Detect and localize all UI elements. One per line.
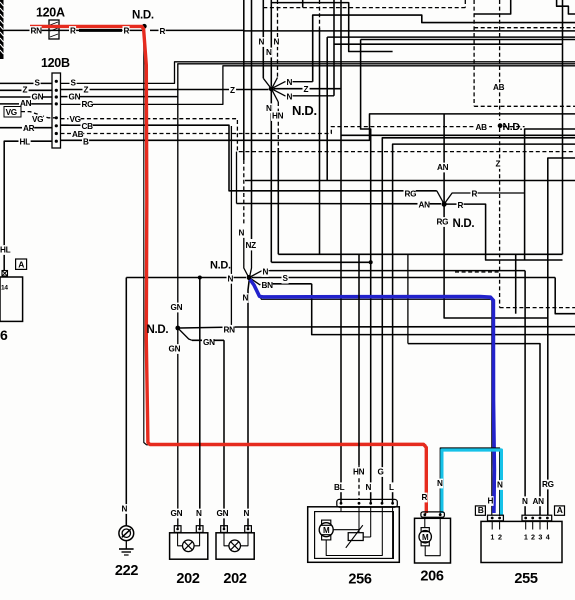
- wire HN diagonal and vertical: [271, 89, 278, 102]
- label Z left: [22, 85, 29, 95]
- label A boxed: [16, 259, 27, 269]
- component 206 box: [415, 518, 451, 563]
- wire y=135.3 to BL tee: [341, 134, 575, 136]
- svg-text:N: N: [366, 483, 372, 492]
- label N 255 B2: [496, 480, 503, 490]
- label AN left of junction: [418, 200, 430, 210]
- wire long vertical x=319.5: [319, 0, 321, 28]
- lamp 202-2 box: [216, 533, 254, 559]
- label RG below junction: [436, 217, 448, 227]
- edge connector hatched bar top-left: [0, 0, 4, 59]
- wire N black under cyan: [440, 448, 499, 516]
- label GN below junction3: [168, 344, 180, 354]
- node junction3 dot: [175, 326, 180, 331]
- svg-text:N: N: [263, 268, 269, 277]
- svg-text:14: 14: [1, 285, 8, 292]
- wire N corner down to 255 A1: [524, 271, 526, 515]
- wire HN-line vertical x=407.9: [407, 254, 409, 343]
- label S left: [34, 78, 41, 88]
- component 256 motor: [319, 523, 333, 537]
- wire S right rising to y=61.8: [61, 62, 575, 84]
- wire dashed AB vertical x=474.1: [473, 0, 475, 106]
- wire y=180.5 full: [245, 180, 575, 182]
- label R right of junction: [457, 200, 464, 210]
- svg-text:R: R: [458, 201, 464, 210]
- svg-text:AB: AB: [476, 123, 488, 132]
- label AN above junction: [436, 163, 448, 173]
- label N left of junction2: [227, 274, 234, 284]
- wire dashed AB vertical x=499.6: [499, 0, 501, 120]
- svg-text:R: R: [422, 493, 428, 502]
- svg-text:256: 256: [348, 572, 372, 588]
- label N 256: [365, 482, 372, 492]
- svg-text:H: H: [488, 497, 494, 506]
- wire B right corner up at x=369.5: [61, 114, 575, 140]
- svg-text:N: N: [228, 274, 234, 283]
- svg-text:2: 2: [498, 533, 502, 542]
- svg-text:HL: HL: [0, 246, 11, 255]
- lamp 202-2 terminal GN: [221, 526, 228, 533]
- label VG right: [69, 115, 81, 125]
- component 256 terminal strip: [337, 499, 398, 507]
- svg-text:R: R: [160, 27, 166, 36]
- node junction RG dot: [442, 202, 447, 207]
- svg-text:222: 222: [115, 563, 139, 579]
- svg-text:GN: GN: [217, 509, 229, 518]
- svg-text:B: B: [83, 137, 89, 146]
- label R after 120A: [69, 26, 76, 36]
- label GN lamp1: [170, 509, 182, 519]
- lamp 202-1 bulb: [183, 540, 195, 552]
- label R 206: [421, 493, 428, 503]
- wire H black under blue: [249, 278, 492, 516]
- svg-text:N.D.: N.D.: [132, 10, 154, 22]
- label Z mid: [229, 85, 236, 95]
- wire HN-256 vertical: [358, 254, 360, 465]
- svg-text:N: N: [239, 229, 245, 238]
- label RG 255 A4: [541, 480, 553, 490]
- wire AN left: [0, 103, 52, 105]
- label GN left: [31, 92, 43, 102]
- wire y=44.2 line: [334, 43, 563, 45]
- wire N down from junction2 to lamp2: [248, 280, 249, 528]
- label AB at ND dot: [475, 122, 487, 132]
- label GN right: [68, 92, 80, 102]
- label A boxed 255: [555, 506, 565, 515]
- svg-text:BL: BL: [334, 483, 345, 492]
- svg-text:N: N: [122, 505, 128, 514]
- wire N dashed vertical into junction1: [277, 0, 279, 78]
- wire stub top x=302.7: [302, 0, 304, 8]
- connector 120B pins: [55, 80, 58, 83]
- wire AN above junction: [443, 114, 445, 203]
- svg-text:2: 2: [531, 533, 535, 542]
- svg-text:N: N: [244, 509, 250, 518]
- label RN: [30, 26, 42, 36]
- label AB on dashed vertical: [492, 82, 504, 92]
- svg-text:R: R: [124, 27, 130, 36]
- svg-text:Z: Z: [23, 86, 28, 95]
- svg-text:RN: RN: [31, 27, 43, 36]
- svg-text:N.D.: N.D.: [453, 218, 475, 230]
- highlight cyan wire: [442, 450, 502, 515]
- svg-text:1: 1: [524, 533, 528, 542]
- connector 120B body: [52, 73, 61, 148]
- svg-text:B: B: [478, 505, 484, 515]
- lamp 202-1 terminal N: [196, 526, 203, 533]
- label R right of dot: [159, 26, 166, 36]
- svg-text:RG: RG: [542, 480, 554, 489]
- svg-text:N.D.: N.D.: [503, 121, 523, 133]
- svg-text:RN: RN: [224, 325, 236, 334]
- wire N upper-right branch junction1: [271, 82, 312, 89]
- wire AN vertical from VG net: [236, 152, 238, 204]
- wire dashed y=27.7: [474, 27, 575, 29]
- svg-text:AN: AN: [533, 497, 545, 506]
- svg-text:N: N: [274, 38, 280, 47]
- svg-text:GN: GN: [171, 509, 183, 518]
- node T lamp1 N: [198, 276, 202, 280]
- wire Z dashed down from AB dot: [499, 128, 501, 308]
- svg-text:6: 6: [0, 327, 8, 343]
- node junction2 dot: [247, 275, 252, 280]
- svg-text:1: 1: [490, 533, 494, 542]
- wire R from left edge through 120A to junction: [0, 29, 144, 31]
- svg-text:202: 202: [176, 571, 200, 587]
- svg-text:CB: CB: [82, 122, 94, 131]
- svg-text:N: N: [243, 294, 249, 303]
- label RG at junction: [404, 189, 416, 199]
- component 256 outer box: [308, 507, 400, 563]
- component 256 internal wires: [333, 529, 359, 531]
- svg-text:GN: GN: [171, 303, 183, 312]
- svg-text:RG: RG: [82, 100, 94, 109]
- label GN diagonal: [202, 338, 214, 348]
- wire CB vertical x=231.4: [230, 126, 232, 327]
- wire RN right of junction3: [180, 327, 238, 328]
- label Z junction1 right: [303, 85, 310, 95]
- wire GN diagonal branch: [178, 328, 192, 340]
- wire R right of junction: [150, 29, 244, 31]
- label N junction1 upper right: [286, 78, 293, 88]
- svg-text:206: 206: [420, 569, 444, 585]
- svg-text:S: S: [283, 274, 289, 283]
- svg-text:M: M: [422, 533, 429, 542]
- label S right: [70, 78, 77, 88]
- svg-text:N: N: [522, 497, 528, 506]
- label N junction1 lower right: [286, 92, 293, 102]
- svg-text:GN: GN: [203, 338, 215, 347]
- wire Z vertical up to top and down as BL: [340, 0, 342, 503]
- wire AB right dashed: [61, 127, 493, 134]
- label L 256: [388, 482, 395, 492]
- label HL: [19, 137, 31, 147]
- svg-text:HN: HN: [272, 112, 284, 121]
- component 255 terminal strip A: [522, 515, 552, 521]
- wire GN right from 120B: [61, 96, 178, 98]
- label G 256: [377, 467, 384, 477]
- svg-text:S: S: [71, 79, 77, 88]
- ground 222 screw circle: [119, 526, 134, 541]
- svg-text:N.D.: N.D.: [147, 324, 169, 336]
- wire corner x=327.2: [326, 37, 328, 180]
- svg-text:N: N: [259, 38, 265, 47]
- component A box: [0, 277, 23, 321]
- wire GN corner down to lamp2 GN: [223, 340, 225, 528]
- svg-text:202: 202: [223, 571, 247, 587]
- svg-text:Z: Z: [84, 86, 89, 95]
- label N upper right junction2: [262, 267, 269, 277]
- label BL 256: [333, 482, 345, 492]
- svg-text:GN: GN: [69, 92, 81, 101]
- svg-text:255: 255: [514, 571, 538, 587]
- svg-text:120B: 120B: [41, 56, 70, 70]
- svg-text:R: R: [472, 190, 478, 199]
- wire VG right dashed to corner down: [61, 119, 575, 152]
- svg-text:120A: 120A: [36, 6, 65, 20]
- svg-text:AB: AB: [493, 83, 505, 92]
- svg-text:AN: AN: [20, 99, 32, 108]
- component 255 pin stubs: [491, 521, 493, 530]
- wire S right of junction2: [252, 277, 555, 279]
- wire N down from junction1: [270, 91, 272, 262]
- label GN lamp2: [216, 509, 228, 519]
- label N 255 A1: [521, 496, 528, 506]
- component 206 terminal strip: [421, 512, 445, 517]
- svg-text:G: G: [378, 468, 384, 477]
- wire RG right corner up: [61, 66, 575, 105]
- wire Z right to junction1: [61, 89, 269, 91]
- label BN junction2: [261, 281, 273, 291]
- wire vertical x=515.7: [515, 254, 517, 313]
- svg-text:Z: Z: [304, 85, 309, 94]
- label N above junction1 mid: [265, 48, 272, 58]
- wire Z dashed corner right: [500, 307, 575, 309]
- lamp 202-2 bulb: [229, 540, 241, 552]
- wire N vertical x=271.3 above junction1: [270, 0, 272, 86]
- wire R upper right of junction: [444, 193, 524, 204]
- label N above junction1 right: [273, 37, 280, 47]
- wire N corner right to x=370.7: [271, 261, 370, 263]
- wire R black under red vertical and bottom: [144, 28, 426, 514]
- lamp 202-2 terminal N: [245, 526, 252, 533]
- wire staircase top right: [557, 0, 575, 14]
- svg-text:Z: Z: [496, 160, 501, 169]
- label NZ above junction2: [245, 241, 257, 251]
- svg-text:N: N: [437, 479, 443, 488]
- svg-text:GN: GN: [169, 345, 181, 354]
- svg-text:R: R: [70, 27, 76, 36]
- wire GN net corner and long vertical: [178, 64, 575, 528]
- wire NZ line above junction2: [251, 0, 253, 239]
- wire G corner x=382.3: [382, 138, 575, 503]
- svg-text:N: N: [497, 481, 503, 490]
- wire corner x=524.6 down to R line: [525, 129, 575, 260]
- label HL on vertical: [0, 245, 11, 255]
- wire S left: [0, 82, 52, 84]
- svg-text:BN: BN: [262, 281, 274, 290]
- component 255 box: [481, 521, 562, 562]
- wire RG below junction to A4 tee: [444, 206, 548, 318]
- wire BN corner down then right: [312, 284, 575, 335]
- label H 255: [487, 496, 494, 506]
- label AN left: [19, 99, 31, 109]
- wire N-256 vertical with jog: [361, 40, 371, 504]
- svg-text:M: M: [323, 526, 330, 535]
- label RN junction3: [223, 325, 235, 335]
- svg-text:N: N: [287, 78, 293, 87]
- svg-text:3: 3: [538, 533, 542, 542]
- highlight red wire: [30, 26, 426, 513]
- wire N.D. corner x=548 down to 255 A4: [548, 158, 575, 515]
- wire vertical x=562.5 middle: [562, 44, 564, 254]
- wire N left of junction2 to ground: [126, 277, 246, 279]
- wire N vertical x=334 to top: [333, 0, 335, 96]
- label HN 256: [352, 467, 364, 477]
- label CB right: [81, 121, 93, 131]
- node N.D. top dot: [142, 24, 147, 29]
- component A pin terminal: [2, 271, 8, 277]
- wire Z right of junction1: [274, 88, 341, 90]
- svg-text:HN: HN: [353, 468, 365, 477]
- svg-text:AR: AR: [23, 124, 35, 133]
- wire AN left of junction: [237, 203, 442, 205]
- wire VG left dashed diagonal: [21, 112, 56, 118]
- label N lamp2: [243, 509, 250, 519]
- label AB right: [71, 130, 83, 140]
- wire R thick segment: [79, 29, 122, 32]
- label RG right: [81, 100, 93, 110]
- svg-text:N.D.: N.D.: [292, 103, 317, 118]
- component 256 resistor: [348, 533, 363, 541]
- wire L corner x=392.6: [393, 144, 575, 503]
- svg-text:L: L: [389, 483, 394, 492]
- wire top solid y=2.6: [271, 3, 392, 52]
- svg-text:N: N: [266, 48, 272, 57]
- node N.D. AB dot: [498, 123, 503, 128]
- lamp 202-1 terminal GN: [174, 526, 181, 533]
- wire R right of junction to corner down: [446, 204, 563, 260]
- label GN above junction3: [170, 303, 182, 313]
- wire dashed stub y=272: [455, 271, 500, 273]
- wire HL left with corner down to component A: [4, 141, 52, 270]
- label N ground wire: [121, 504, 128, 514]
- wire RG diag into junction: [437, 191, 444, 204]
- label AN 255 A3: [532, 496, 544, 506]
- wire N corner up to y=15.1 jog: [313, 15, 575, 82]
- wire CB right corner down to RG line: [61, 125, 437, 191]
- svg-text:N: N: [287, 92, 293, 101]
- wire N lower-right branch junction1: [271, 89, 334, 96]
- lamp 202-1 box: [170, 533, 208, 559]
- svg-text:RG: RG: [437, 218, 449, 227]
- svg-text:HL: HL: [20, 138, 31, 147]
- connector 120A symbol: [49, 20, 59, 39]
- wire y=14 corner up x=510.7: [474, 0, 511, 14]
- component 206 internal wires: [424, 517, 426, 527]
- wire AN line y=343.6 to A3: [408, 344, 540, 515]
- label N below junction1: [265, 103, 272, 113]
- component 256 inner box: [315, 512, 394, 559]
- wire HN line right: [278, 253, 562, 255]
- label N 206 cyan: [436, 479, 443, 489]
- svg-text:AN: AN: [437, 163, 449, 172]
- svg-text:RG: RG: [405, 190, 417, 199]
- wire N to lamp1: [199, 278, 201, 529]
- label R mid: [123, 26, 130, 36]
- svg-text:GN: GN: [32, 92, 44, 101]
- node junction1 dot: [269, 86, 274, 91]
- wire S corner down right edge: [555, 278, 575, 314]
- label S junction2: [282, 274, 289, 284]
- svg-text:S: S: [35, 79, 41, 88]
- label VG boxed left: [4, 107, 21, 118]
- wire N dashed above junction2: [243, 0, 245, 160]
- label Z on dashed: [495, 159, 502, 169]
- node N junction on 256 wire: [369, 260, 373, 264]
- wire Z left: [0, 89, 52, 91]
- component 255 terminal strip B: [488, 515, 504, 521]
- label AR left: [22, 124, 34, 134]
- highlight blue wire: [250, 280, 494, 514]
- wire AR left: [0, 127, 52, 129]
- wire BN branch of junction2: [249, 278, 262, 285]
- svg-text:A: A: [18, 259, 24, 269]
- svg-text:AB: AB: [72, 130, 84, 139]
- label N lamp1: [195, 509, 202, 519]
- wire N upper right branch junction2: [249, 271, 270, 278]
- label Z right: [83, 85, 90, 95]
- svg-text:AN: AN: [419, 201, 431, 210]
- svg-text:NZ: NZ: [246, 241, 257, 250]
- svg-text:VG: VG: [70, 115, 81, 124]
- label R upper right junction: [471, 189, 478, 199]
- wire N to ground 222: [125, 278, 127, 527]
- svg-text:VG: VG: [32, 115, 43, 124]
- svg-text:VG: VG: [6, 108, 17, 117]
- svg-text:4: 4: [546, 533, 550, 542]
- svg-text:N: N: [196, 509, 202, 518]
- label N below junction2: [242, 293, 249, 303]
- wire vertical x=562.5 top: [562, 0, 564, 44]
- wire N vertical into junction1 left arm: [262, 0, 264, 78]
- wire y=39.5 corner x=360.6: [361, 39, 575, 41]
- label N above junction1 left: [258, 37, 265, 47]
- wire top dashed y=7.6: [263, 7, 465, 9]
- component 206 motor: [419, 531, 431, 543]
- svg-text:A: A: [557, 505, 563, 515]
- label VG mid: [31, 115, 43, 125]
- label HN below junction1: [271, 111, 283, 121]
- wire GN left: [0, 96, 52, 98]
- label N dashed above junction2: [238, 228, 245, 238]
- wire AB dashed right of dot: [503, 126, 525, 128]
- label B boxed 255: [475, 506, 485, 515]
- svg-text:N.D.: N.D.: [210, 260, 231, 272]
- svg-text:Z: Z: [230, 86, 235, 95]
- label B right: [82, 137, 89, 147]
- ground 222 symbol: [125, 541, 127, 549]
